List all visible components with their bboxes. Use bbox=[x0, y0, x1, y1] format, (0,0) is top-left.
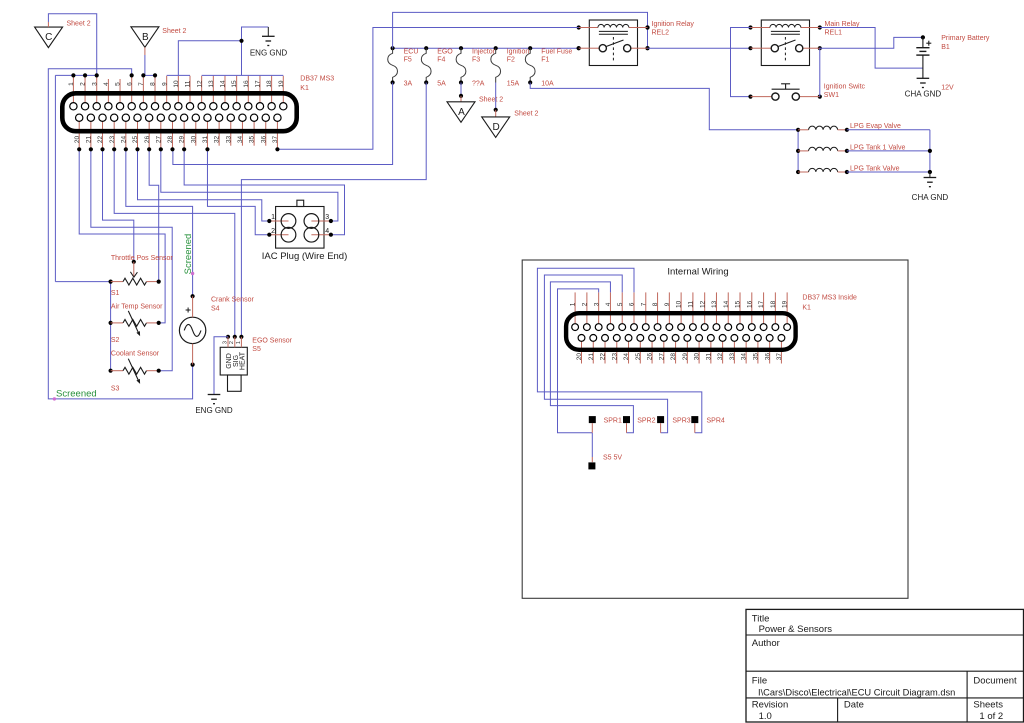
svg-text:8: 8 bbox=[150, 82, 157, 86]
svg-text:6: 6 bbox=[126, 82, 133, 86]
svg-text:Ignition: Ignition bbox=[507, 49, 530, 56]
svg-text:Sheet 2: Sheet 2 bbox=[162, 28, 186, 35]
svg-text:EGO Sensor: EGO Sensor bbox=[252, 337, 292, 344]
svg-text:6: 6 bbox=[629, 302, 636, 306]
fuse F4 EGO 5A bbox=[421, 48, 453, 87]
svg-text:34: 34 bbox=[741, 353, 748, 361]
svg-text:K1: K1 bbox=[802, 305, 811, 312]
label Sheet 2 for C bbox=[67, 21, 91, 28]
svg-text:11: 11 bbox=[185, 80, 192, 87]
relay REL2 Ignition Relay bbox=[577, 20, 650, 66]
inner connector bottom pin stubs and numbers 20-37 bbox=[576, 340, 783, 364]
ground CHA GND battery bbox=[905, 78, 942, 98]
wire F5 to pin 28 bbox=[170, 83, 392, 165]
fuse F5 ECU 3A bbox=[388, 48, 419, 87]
label Internal Wiring bbox=[667, 267, 728, 278]
svg-text:F3: F3 bbox=[472, 56, 480, 63]
svg-text:17: 17 bbox=[255, 80, 262, 88]
svg-text:29: 29 bbox=[179, 136, 186, 144]
label B1 Primary Battery bbox=[941, 35, 990, 51]
svg-text:LPG Evap Valve: LPG Evap Valve bbox=[850, 123, 901, 130]
wire bracket pins 12-19 to ENG GND bbox=[202, 27, 284, 75]
svg-text:25: 25 bbox=[635, 353, 642, 361]
svg-text:21: 21 bbox=[85, 136, 92, 144]
wire LPG valve left bus bbox=[796, 128, 800, 174]
svg-text:4: 4 bbox=[605, 302, 612, 306]
svg-text:ENG GND: ENG GND bbox=[195, 406, 233, 415]
svg-text:Fuel Fuse: Fuel Fuse bbox=[541, 49, 572, 56]
svg-text:10: 10 bbox=[173, 80, 180, 88]
label S4 Crank Sensor bbox=[211, 297, 254, 313]
wire sheet C to pin 3 bbox=[48, 14, 96, 76]
fuse F3 Injector ??A bbox=[456, 48, 495, 87]
svg-text:ENG GND: ENG GND bbox=[250, 49, 288, 58]
svg-text:S4: S4 bbox=[211, 305, 220, 312]
label K1 DB37 MS3 bbox=[300, 75, 334, 92]
label IAC Plug Wire End bbox=[262, 251, 348, 262]
node screened marker on crank screen bbox=[191, 272, 194, 275]
title block bbox=[746, 609, 1024, 722]
resistor S1 Throttle Pos Sensor bbox=[111, 255, 174, 297]
wire pin 24 to crank sensor screen bbox=[124, 147, 193, 296]
svg-text:Air Temp Sensor: Air Temp Sensor bbox=[111, 303, 163, 310]
svg-text:12: 12 bbox=[196, 80, 203, 88]
label SW1 Ignition Switch bbox=[824, 83, 866, 99]
svg-text:16: 16 bbox=[746, 300, 753, 308]
svg-text:Coolant Sensor: Coolant Sensor bbox=[111, 351, 160, 358]
svg-text:SPR1: SPR1 bbox=[604, 418, 622, 425]
label Sheet 2 for D bbox=[514, 110, 538, 117]
svg-text:37: 37 bbox=[272, 136, 279, 144]
connector K1 DB37 MS3 outline bbox=[62, 93, 296, 131]
svg-text:Screened: Screened bbox=[56, 389, 97, 400]
switch SW1 Ignition Switch bbox=[748, 84, 822, 100]
ground CHA GND valves bbox=[912, 172, 949, 202]
svg-text:??A: ??A bbox=[472, 80, 485, 87]
wire inner pin 3 to SPR1 and S5 5V bbox=[558, 289, 599, 462]
wire SW1 to REL1 switch bbox=[819, 48, 821, 96]
svg-text:1: 1 bbox=[271, 214, 275, 221]
sheet connector C bbox=[35, 27, 63, 47]
svg-text:DB37 MS3 Inside: DB37 MS3 Inside bbox=[802, 295, 857, 302]
wire bracket pins 9-11 to ENG GND bbox=[167, 41, 242, 76]
svg-text:File: File bbox=[752, 676, 767, 687]
resistor S3 Coolant Sensor bbox=[111, 351, 161, 393]
svg-text:K1: K1 bbox=[300, 85, 309, 92]
svg-text:33: 33 bbox=[729, 353, 736, 361]
svg-text:18: 18 bbox=[266, 80, 273, 88]
terminal SPR2 bbox=[623, 416, 656, 433]
svg-text:Revision: Revision bbox=[752, 699, 788, 710]
fuse F1 Fuel Fuse 10A bbox=[525, 48, 572, 87]
svg-text:3: 3 bbox=[325, 214, 329, 221]
svg-text:Injector: Injector bbox=[472, 49, 496, 56]
svg-text:B: B bbox=[142, 32, 149, 43]
svg-text:Primary Battery: Primary Battery bbox=[941, 35, 990, 42]
wire inner pin 5 to SPR3 bbox=[544, 275, 667, 433]
svg-text:Power & Sensors: Power & Sensors bbox=[759, 624, 833, 635]
svg-text:Crank Sensor: Crank Sensor bbox=[211, 297, 254, 304]
svg-text:14: 14 bbox=[220, 80, 227, 88]
wire pin 37 to REL2 coil bbox=[275, 28, 578, 152]
svg-text:36: 36 bbox=[260, 136, 267, 144]
svg-text:S5 5V: S5 5V bbox=[603, 455, 622, 462]
svg-text:I\Cars\Disco\Electrical\ECU Ci: I\Cars\Disco\Electrical\ECU Circuit Diag… bbox=[758, 688, 955, 698]
svg-text:Throttle Pos Sensor: Throttle Pos Sensor bbox=[111, 255, 174, 262]
svg-text:3: 3 bbox=[91, 82, 98, 86]
svg-text:30: 30 bbox=[694, 353, 701, 361]
ground ENG GND bottom bbox=[195, 395, 233, 416]
svg-text:35: 35 bbox=[753, 353, 760, 361]
svg-text:2: 2 bbox=[581, 302, 588, 306]
svg-text:F1: F1 bbox=[541, 56, 549, 63]
wire F3 to sheet A bbox=[459, 83, 463, 102]
wire pin 26 to S1 right bbox=[147, 147, 159, 281]
label REL2 Ignition Relay bbox=[652, 21, 695, 37]
svg-text:27: 27 bbox=[658, 353, 665, 361]
svg-text:31: 31 bbox=[705, 353, 712, 361]
svg-text:Main Relay: Main Relay bbox=[825, 21, 861, 28]
svg-text:9: 9 bbox=[664, 302, 671, 306]
svg-text:32: 32 bbox=[717, 353, 724, 361]
svg-text:Document: Document bbox=[973, 676, 1017, 687]
label S5 EGO Sensor bbox=[252, 337, 292, 353]
wire LPG valves right bus to CHA GND bbox=[847, 130, 932, 174]
wire REL1 switch to battery positive bbox=[820, 35, 925, 48]
wire pin 21 to S3 bbox=[89, 147, 172, 371]
wire pin 25 to IAC pin 1 bbox=[135, 147, 269, 221]
resistor S2 Air Temp Sensor bbox=[111, 303, 164, 344]
svg-text:Sheet 2: Sheet 2 bbox=[67, 21, 91, 28]
sheet connector D bbox=[482, 117, 510, 137]
svg-text:CHA GND: CHA GND bbox=[912, 193, 949, 202]
wire pin 22 to S1 wiper bbox=[100, 147, 133, 262]
svg-text:REL2: REL2 bbox=[652, 30, 670, 37]
wire inner pin 6 to SPR4 bbox=[537, 268, 701, 433]
svg-text:F5: F5 bbox=[404, 56, 412, 63]
svg-text:29: 29 bbox=[682, 353, 689, 361]
relay REL1 Main Relay bbox=[748, 20, 822, 66]
inner connector top pin stubs and numbers 1-19 bbox=[570, 292, 789, 325]
svg-text:F4: F4 bbox=[437, 56, 445, 63]
svg-text:22: 22 bbox=[600, 353, 607, 361]
inductor LPG Tank 1 Valve bbox=[798, 144, 905, 153]
wire pin 6 screened net to bottom left bbox=[48, 69, 192, 399]
label inner K1 DB37 MS3 Inside bbox=[802, 295, 857, 312]
svg-text:LPG Tank 1 Valve: LPG Tank 1 Valve bbox=[850, 144, 905, 151]
svg-text:28: 28 bbox=[167, 136, 174, 144]
svg-text:C: C bbox=[45, 32, 52, 43]
svg-text:Date: Date bbox=[844, 699, 864, 710]
svg-text:24: 24 bbox=[623, 353, 630, 361]
wire pin 23 to EGO signal bbox=[112, 147, 235, 337]
svg-text:32: 32 bbox=[214, 136, 221, 144]
svg-text:D: D bbox=[492, 122, 499, 133]
svg-text:15: 15 bbox=[231, 80, 238, 88]
svg-text:26: 26 bbox=[647, 353, 654, 361]
svg-text:1: 1 bbox=[236, 341, 242, 344]
svg-text:IAC Plug (Wire End): IAC Plug (Wire End) bbox=[262, 251, 348, 262]
label REL1 Main Relay bbox=[825, 21, 861, 37]
svg-text:5: 5 bbox=[115, 82, 122, 86]
svg-text:Sheet 2: Sheet 2 bbox=[514, 110, 538, 117]
K1 bottom pin stubs and pin numbers 20-37 bbox=[74, 120, 279, 149]
svg-text:9: 9 bbox=[161, 82, 168, 86]
svg-text:SPR4: SPR4 bbox=[707, 418, 725, 425]
svg-text:25: 25 bbox=[132, 136, 139, 144]
connector IAC Plug Wire End bbox=[267, 200, 333, 248]
svg-text:27: 27 bbox=[155, 136, 162, 144]
wire pin 27 to IAC pin 3 bbox=[159, 147, 338, 221]
svg-text:5A: 5A bbox=[437, 80, 446, 87]
svg-text:Sheet 2: Sheet 2 bbox=[479, 97, 503, 104]
svg-text:1: 1 bbox=[570, 302, 577, 306]
svg-text:S5: S5 bbox=[252, 346, 261, 353]
terminal SPR3 bbox=[657, 416, 691, 433]
inner connector pin sockets bbox=[572, 324, 791, 342]
svg-text:S3: S3 bbox=[111, 386, 120, 393]
svg-text:10: 10 bbox=[676, 300, 683, 308]
ground ENG GND top bbox=[250, 27, 288, 58]
svg-text:SW1: SW1 bbox=[824, 92, 839, 99]
label Sheet 2 for B bbox=[162, 28, 186, 35]
svg-text:7: 7 bbox=[640, 302, 647, 306]
svg-text:35: 35 bbox=[249, 136, 256, 144]
svg-text:30: 30 bbox=[190, 136, 197, 144]
wire pin 20 to S2 bbox=[77, 147, 165, 323]
svg-text:2: 2 bbox=[271, 228, 275, 235]
wire REL1 coil to ignition switch SW1 bbox=[731, 28, 751, 97]
ac source S4 Crank Sensor bbox=[179, 294, 205, 367]
svg-text:31: 31 bbox=[202, 136, 209, 144]
terminal SPR1 bbox=[589, 416, 622, 433]
inductor LPG Evap Valve bbox=[798, 123, 901, 132]
svg-text:A: A bbox=[458, 107, 465, 118]
wire F2 to sheet D bbox=[494, 83, 498, 117]
svg-text:Internal Wiring: Internal Wiring bbox=[667, 267, 728, 278]
svg-text:S2: S2 bbox=[111, 337, 120, 344]
svg-text:F2: F2 bbox=[507, 56, 515, 63]
svg-text:22: 22 bbox=[97, 136, 104, 144]
svg-text:19: 19 bbox=[782, 300, 789, 308]
connector K1 DB37 MS3 Inside outline bbox=[566, 313, 796, 350]
svg-text:7: 7 bbox=[138, 82, 145, 86]
svg-text:14: 14 bbox=[723, 300, 730, 308]
svg-text:Ignition Relay: Ignition Relay bbox=[652, 21, 695, 28]
svg-text:11: 11 bbox=[688, 301, 695, 308]
label Sheet 2 for A bbox=[479, 97, 503, 104]
svg-text:3A: 3A bbox=[404, 80, 413, 87]
label Screened vertical bbox=[183, 234, 194, 275]
connector K1 pin sockets bbox=[70, 103, 287, 122]
wire pin 29 to IAC pin 4 bbox=[182, 147, 344, 235]
wire pin 31 to IAC pin 2 bbox=[205, 147, 269, 235]
svg-text:20: 20 bbox=[74, 136, 81, 144]
K1 top pin stubs and pin numbers 1-19 bbox=[68, 76, 285, 104]
wire F5 top to REL2 coil bbox=[393, 12, 650, 50]
svg-text:19: 19 bbox=[278, 80, 285, 88]
sheet connector A bbox=[447, 102, 475, 123]
svg-text:13: 13 bbox=[208, 80, 215, 88]
svg-text:26: 26 bbox=[144, 136, 151, 144]
svg-text:2: 2 bbox=[80, 82, 87, 86]
wire sensor left bus bbox=[55, 280, 112, 373]
svg-text:2: 2 bbox=[229, 341, 235, 344]
svg-text:33: 33 bbox=[225, 136, 232, 144]
label Screened horizontal bbox=[56, 389, 97, 400]
svg-text:1: 1 bbox=[68, 82, 75, 86]
connector S5 EGO Sensor bbox=[220, 335, 247, 392]
terminal S5 5V bbox=[588, 455, 622, 470]
svg-text:Author: Author bbox=[752, 638, 780, 649]
svg-text:1.0: 1.0 bbox=[759, 711, 772, 722]
svg-text:37: 37 bbox=[776, 353, 783, 361]
svg-text:Screened: Screened bbox=[183, 234, 194, 275]
svg-text:EGO: EGO bbox=[437, 49, 453, 56]
svg-text:Sheets: Sheets bbox=[973, 699, 1003, 710]
svg-text:HEAT: HEAT bbox=[240, 351, 247, 370]
svg-text:24: 24 bbox=[120, 136, 127, 144]
svg-text:DB37 MS3: DB37 MS3 bbox=[300, 75, 334, 82]
svg-text:B1: B1 bbox=[941, 44, 950, 51]
svg-text:REL1: REL1 bbox=[825, 30, 843, 37]
svg-text:10A: 10A bbox=[541, 80, 554, 87]
battery B1 Primary Battery 12V bbox=[916, 37, 931, 78]
title block text bbox=[752, 614, 1017, 723]
svg-text:CHA GND: CHA GND bbox=[905, 90, 942, 99]
svg-text:8: 8 bbox=[652, 302, 659, 306]
svg-text:34: 34 bbox=[237, 136, 244, 144]
svg-text:28: 28 bbox=[670, 353, 677, 361]
svg-text:1 of 2: 1 of 2 bbox=[979, 711, 1003, 722]
wire F4 to EGO heater bbox=[241, 83, 426, 337]
sheet connector B bbox=[131, 27, 159, 48]
svg-text:12: 12 bbox=[699, 300, 706, 308]
svg-text:17: 17 bbox=[758, 300, 765, 308]
svg-text:23: 23 bbox=[109, 136, 116, 144]
svg-text:4: 4 bbox=[103, 82, 110, 86]
node screened marker bottom left bbox=[53, 397, 56, 400]
svg-text:ECU: ECU bbox=[404, 49, 419, 56]
svg-text:12V: 12V bbox=[941, 84, 954, 91]
svg-text:S1: S1 bbox=[111, 290, 120, 297]
terminal SPR4 bbox=[691, 416, 725, 433]
wire sheet B to pins 7-8 bbox=[141, 47, 157, 77]
svg-text:18: 18 bbox=[770, 300, 777, 308]
internal wiring boundary box bbox=[522, 260, 908, 598]
svg-text:16: 16 bbox=[243, 80, 250, 88]
wire EGO ground to ENG GND bbox=[214, 337, 228, 395]
wire F1 to LPG valves bbox=[530, 83, 798, 130]
fuse F2 Ignition 15A bbox=[491, 48, 530, 87]
wire REL1 coil to battery negative bbox=[820, 28, 923, 69]
svg-text:13: 13 bbox=[711, 300, 718, 308]
svg-text:15A: 15A bbox=[507, 80, 520, 87]
wire inner pin 4 to SPR2 bbox=[550, 282, 633, 433]
svg-text:SPR3: SPR3 bbox=[672, 418, 690, 425]
wire REL2 switch to REL1 switch bbox=[648, 47, 751, 49]
svg-text:23: 23 bbox=[611, 353, 618, 361]
svg-text:15: 15 bbox=[735, 300, 742, 308]
svg-text:LPG Tank Valve: LPG Tank Valve bbox=[850, 165, 900, 172]
label 12V bbox=[941, 84, 954, 91]
svg-text:3: 3 bbox=[593, 302, 600, 306]
svg-text:5: 5 bbox=[617, 302, 624, 306]
svg-text:3: 3 bbox=[222, 341, 228, 344]
wire fuse supply bus bbox=[391, 46, 581, 50]
svg-text:21: 21 bbox=[588, 353, 595, 361]
svg-text:SPR2: SPR2 bbox=[637, 418, 655, 425]
svg-text:Ignition Switc: Ignition Switc bbox=[824, 83, 866, 90]
svg-text:4: 4 bbox=[325, 228, 329, 235]
svg-text:36: 36 bbox=[764, 353, 771, 361]
wire pins 1-2-3 to sensor bus bbox=[55, 73, 98, 281]
svg-text:20: 20 bbox=[576, 353, 583, 361]
inductor LPG Tank Valve bbox=[798, 165, 900, 174]
